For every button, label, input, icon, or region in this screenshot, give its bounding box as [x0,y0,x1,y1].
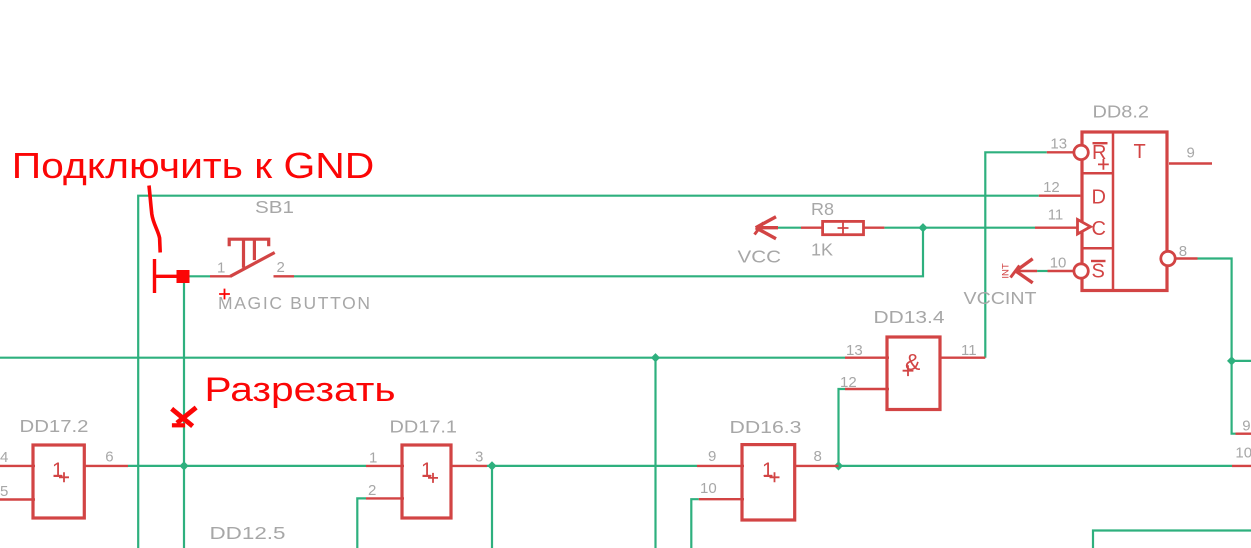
svg-text:11: 11 [1048,207,1064,224]
svg-text:5: 5 [0,483,8,500]
svg-text:10: 10 [1050,255,1067,272]
svg-text:1: 1 [762,459,773,482]
svg-text:1: 1 [369,450,377,467]
svg-text:9: 9 [708,448,716,465]
svg-text:9: 9 [1187,145,1195,162]
svg-text:12: 12 [1043,179,1060,196]
svg-text:R: R [1092,142,1106,164]
svg-text:10: 10 [700,480,717,497]
svg-text:D: D [1092,187,1106,209]
svg-text:T: T [1134,141,1146,163]
svg-text:1: 1 [52,459,63,482]
svg-text:DD12.5: DD12.5 [210,523,286,543]
svg-text:1: 1 [217,260,225,277]
svg-text:6: 6 [105,449,113,466]
svg-text:3: 3 [475,449,483,466]
svg-text:12: 12 [840,374,857,391]
svg-text:2: 2 [368,482,376,499]
svg-text:8: 8 [814,448,822,465]
svg-text:VCCINT: VCCINT [964,288,1037,308]
svg-text:10: 10 [1235,444,1251,461]
svg-text:DD16.3: DD16.3 [730,417,802,437]
svg-text:1K: 1K [811,239,833,259]
svg-text:&: & [905,349,920,375]
svg-text:Подключить к GND: Подключить к GND [12,145,375,186]
svg-text:DD8.2: DD8.2 [1093,102,1150,122]
svg-text:DD13.4: DD13.4 [874,307,945,327]
svg-text:8: 8 [1179,243,1187,260]
svg-text:1: 1 [421,459,432,482]
svg-text:11: 11 [961,342,977,359]
svg-text:Разрезать: Разрезать [205,371,396,409]
svg-text:S: S [1092,261,1105,283]
svg-text:DD17.1: DD17.1 [390,417,458,437]
svg-text:INT: INT [1001,263,1012,279]
svg-text:13: 13 [846,342,863,359]
svg-text:13: 13 [1050,135,1067,152]
svg-text:R8: R8 [811,199,834,219]
svg-text:VCC: VCC [738,247,782,267]
svg-text:C: C [1092,218,1106,240]
svg-text:2: 2 [277,259,285,276]
svg-text:MAGIC BUTTON: MAGIC BUTTON [218,293,370,313]
svg-text:4: 4 [0,449,8,466]
svg-text:SB1: SB1 [255,197,294,217]
svg-text:9: 9 [1242,418,1250,435]
svg-text:DD17.2: DD17.2 [20,416,89,436]
